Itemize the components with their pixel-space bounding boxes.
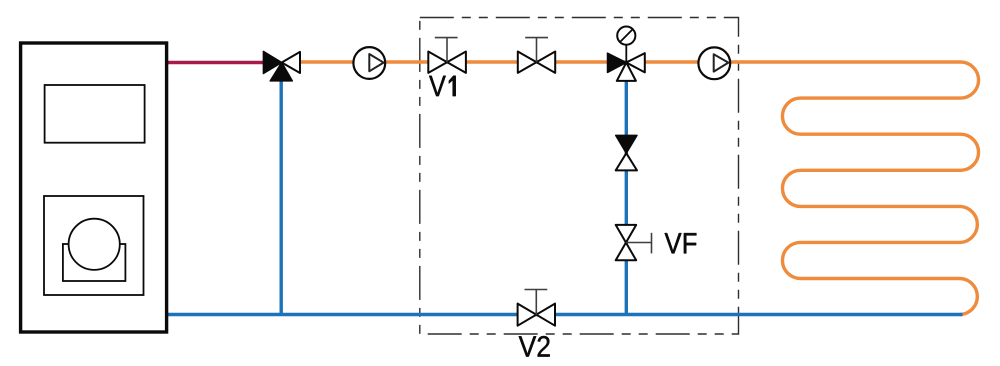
pump P2 circle (698, 47, 730, 79)
valve V2 bowtie (518, 304, 555, 326)
dashed enclosure box (420, 18, 739, 335)
pipe: riser from mixing valve to return (blue) (280, 66, 283, 315)
shut-off valve (unlabelled) bowtie (518, 52, 555, 73)
valve V2 stem (535, 290, 537, 315)
3-way valve V3: right outline triangle (626, 53, 645, 72)
valve VF vertical bowtie (616, 225, 637, 260)
label V2 (519, 336, 550, 357)
pump P2 impeller triangle (714, 54, 729, 71)
check valve: top filled triangle (616, 135, 637, 153)
shut-off valve stem (536, 38, 538, 63)
3-way valve V3: actuator diagonal (620, 29, 633, 42)
pump P1 impeller triangle (369, 54, 383, 71)
mixing valve M1: left filled triangle (263, 51, 281, 73)
label V1 (429, 76, 456, 96)
shut-off valve handle bar (525, 37, 548, 39)
valve V1 handle bar (435, 37, 458, 39)
pump P1 circle (353, 47, 385, 79)
valve V1 bowtie (428, 52, 466, 73)
boiler outline (21, 43, 167, 332)
boiler burner bracket (63, 244, 126, 281)
boiler burner circle (69, 219, 120, 270)
pipe: supply line + floor heating coil (orange) (300, 62, 979, 315)
valve V2 handle bar (525, 289, 548, 291)
3-way valve V3: left filled triangle (608, 53, 627, 72)
3-way valve V3: actuator stem (625, 45, 627, 63)
pipe: boiler supply (crimson) (166, 61, 266, 64)
pipe: drop from 3-way valve V3 to return (blue) (625, 66, 628, 315)
pipe: return line bottom (blue) (166, 313, 963, 316)
mixing valve M1: bottom filled triangle (270, 63, 292, 81)
valve VF handle tick (651, 233, 653, 254)
check valve: bottom outline triangle (616, 153, 637, 170)
valve V1 stem (446, 38, 448, 63)
boiler burner housing square (44, 196, 144, 295)
valve VF handle stem (626, 242, 652, 244)
label VF (665, 233, 697, 253)
3-way valve V3: bottom outline triangle (617, 63, 636, 81)
boiler control panel rectangle (45, 85, 145, 143)
mixing valve M1: right outline triangle (282, 52, 300, 73)
3-way valve V3: actuator circle (617, 26, 635, 44)
